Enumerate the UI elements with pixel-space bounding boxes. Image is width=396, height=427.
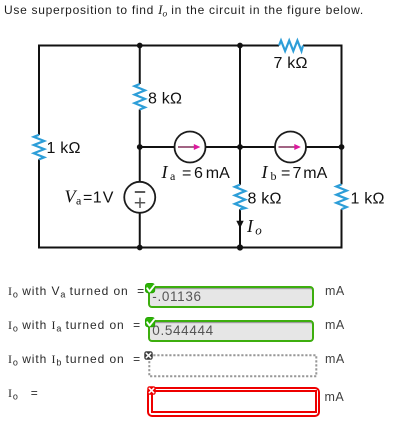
node dot top branch A: [137, 43, 143, 49]
node dot middle branch A: [137, 144, 143, 150]
svg-text:=: =: [281, 165, 290, 182]
problem statement text: [4, 3, 364, 22]
answer row 1 label: [8, 284, 145, 298]
Va plus sign: [135, 198, 145, 208]
resistor 8 kOhm lower (branch B): [235, 185, 245, 210]
resistor 8 kOhm upper (branch A): [135, 84, 145, 110]
resistor 7 kOhm top: [279, 41, 303, 52]
answer row 2 check badge: [145, 317, 158, 330]
wire branch A upper: [139, 46, 141, 85]
current Io arrowhead: [236, 221, 243, 228]
wire middle horizontal between Ia and Ib: [206, 146, 276, 148]
answer row 1 input box (correct): [148, 286, 314, 308]
answer row 4 unit: [325, 390, 345, 404]
resistor 1 kOhm right: [336, 184, 346, 209]
svg-text:V: V: [103, 189, 114, 206]
answer row 2 label: [8, 318, 141, 332]
svg-text:a: a: [170, 169, 176, 183]
answer row 3 label: [8, 352, 141, 366]
wire branch A lower: [139, 213, 141, 248]
node dot bottom branch A: [137, 245, 143, 251]
answer row 3 unit: [325, 352, 345, 366]
circuit schematic: [0, 0, 396, 270]
svg-text:mA: mA: [303, 165, 327, 182]
svg-text:=: =: [83, 189, 92, 206]
svg-text:a: a: [76, 194, 82, 208]
answer row 2 input box (correct): [148, 320, 314, 342]
answer row 4 x badge: [147, 386, 156, 395]
wire branch A middle: [139, 110, 141, 183]
svg-text:7 kΩ: 7 kΩ: [274, 55, 308, 72]
voltage source Va: [124, 182, 155, 213]
node dot middle right: [339, 144, 345, 150]
answer row 4 input box (incorrect, red double border): [147, 387, 320, 417]
answer row 4 label: [8, 386, 39, 400]
node dot middle branch B: [237, 144, 243, 150]
wire top-right segment: [303, 45, 342, 47]
svg-text:6: 6: [194, 165, 203, 182]
wire branch B upper: [239, 46, 241, 185]
svg-text:I: I: [161, 162, 169, 182]
wire middle horizontal left of Ia: [140, 146, 175, 148]
wire right lower: [341, 209, 343, 248]
wire middle horizontal right of Ib: [306, 146, 342, 148]
svg-text:1: 1: [93, 189, 102, 206]
svg-text:8 kΩ: 8 kΩ: [148, 91, 182, 108]
answer row 1 check badge: [145, 283, 158, 296]
svg-text:mA: mA: [206, 165, 230, 182]
current source Ib: [275, 132, 306, 163]
svg-text:I: I: [261, 162, 269, 182]
wire right upper: [341, 45, 343, 185]
svg-text:1 kΩ: 1 kΩ: [351, 191, 385, 208]
svg-text:8 kΩ: 8 kΩ: [248, 191, 282, 208]
resistor 1 kOhm left: [34, 135, 44, 160]
wire bottom: [39, 247, 342, 249]
node dot top branch B: [237, 43, 243, 49]
svg-text:1 kΩ: 1 kΩ: [47, 140, 81, 157]
answer row 3 x badge: [144, 351, 153, 360]
wire left upper: [38, 45, 40, 135]
answer row 1 unit: [325, 284, 345, 298]
svg-text:7: 7: [293, 165, 302, 182]
wire top-left segment: [39, 45, 279, 47]
answer row 3 input box (empty, dotted border): [148, 354, 318, 378]
node dot bottom branch B: [237, 244, 243, 250]
svg-text:=: =: [182, 165, 191, 182]
current source Ia arrow: [178, 146, 195, 148]
current source Ib arrow: [279, 146, 296, 148]
answer row 2 unit: [325, 318, 345, 332]
Va minus sign: [135, 191, 145, 193]
svg-text:o: o: [255, 223, 262, 238]
wire left lower: [38, 159, 40, 248]
svg-text:b: b: [271, 169, 277, 183]
svg-text:I: I: [246, 216, 254, 236]
current source Ia: [175, 132, 206, 163]
wire branch B lower: [239, 209, 241, 247]
